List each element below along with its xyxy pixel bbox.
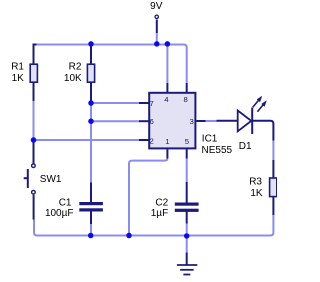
- wire pin5 stub: [186, 149, 188, 182]
- label SW1: [40, 174, 62, 185]
- svg-text:7: 7: [149, 99, 153, 108]
- junction dot trigger node: [31, 137, 37, 143]
- pin number 1: [165, 137, 169, 146]
- svg-text:C1: C1: [59, 197, 72, 208]
- svg-text:R3: R3: [249, 177, 262, 188]
- wire top rail 9V net: [34, 45, 187, 84]
- label R1 value: [11, 62, 24, 85]
- wire LED to right rail: [252, 121, 274, 160]
- wire pin4 drop: [166, 45, 168, 84]
- label IC1 NE555: [202, 134, 233, 157]
- pin number 6: [149, 117, 153, 126]
- label D1: [239, 141, 252, 152]
- label C1 value: [45, 197, 74, 219]
- wire SW1 bottom lead: [33, 195, 35, 220]
- wire pin7: [91, 102, 149, 104]
- wire pin2 trigger: [34, 139, 149, 141]
- pin number 3: [190, 117, 194, 126]
- junction dot R2 tap: [88, 41, 94, 47]
- wire R1 bottom lead: [33, 83, 35, 141]
- capacitor C1: [79, 202, 103, 212]
- svg-text:1K: 1K: [250, 188, 263, 199]
- wire pin6: [91, 120, 149, 122]
- label 9V: [150, 1, 163, 12]
- svg-text:SW1: SW1: [40, 174, 62, 185]
- wire C2 top lead: [186, 182, 188, 203]
- wire ground lead: [186, 238, 188, 265]
- pin number 8: [183, 95, 187, 104]
- resistor R2: [87, 64, 94, 82]
- svg-text:8: 8: [183, 95, 187, 104]
- wire C1 top lead: [90, 183, 92, 203]
- pin number 5: [185, 137, 189, 146]
- pin number 4: [164, 95, 169, 104]
- wire R3 bottom lead: [272, 197, 274, 215]
- switch SW1 push-to-make: [24, 164, 36, 194]
- svg-text:4: 4: [164, 95, 169, 104]
- wire R1 top lead: [34, 45, 37, 65]
- svg-text:1: 1: [165, 137, 169, 146]
- svg-text:9V: 9V: [150, 1, 163, 12]
- svg-text:1µF: 1µF: [151, 208, 168, 219]
- junction dot C1 bottom: [88, 233, 94, 239]
- svg-text:10K: 10K: [64, 73, 82, 84]
- wire R3 top lead: [272, 160, 274, 178]
- svg-text:100µF: 100µF: [45, 208, 74, 219]
- wire SW1 top lead: [33, 141, 35, 164]
- junction dot pin4 tap: [165, 41, 171, 47]
- svg-text:NE555: NE555: [202, 145, 233, 156]
- junction dot pin7 node: [88, 100, 94, 106]
- wire R2 top lead: [90, 45, 92, 64]
- wire pin4 stub: [166, 83, 168, 92]
- svg-text:6: 6: [149, 117, 153, 126]
- resistor R3: [270, 178, 277, 197]
- wire threshold column: [90, 103, 92, 183]
- resistor R1: [30, 64, 37, 82]
- label C2 value: [151, 197, 169, 218]
- svg-text:1K: 1K: [12, 73, 25, 84]
- junction dot 9V tap: [154, 41, 160, 47]
- svg-text:5: 5: [185, 137, 189, 146]
- svg-text:2: 2: [149, 137, 153, 146]
- label R2 value: [64, 62, 82, 85]
- svg-text:3: 3: [190, 117, 194, 126]
- wire pin1 stub and route to 0V: [129, 149, 167, 235]
- power terminal 9V: [155, 15, 158, 44]
- LED D1: [238, 96, 267, 134]
- label R3 value: [249, 177, 263, 200]
- svg-text:R1: R1: [11, 62, 24, 73]
- junction dot ground node: [184, 233, 190, 239]
- svg-text:D1: D1: [239, 141, 252, 152]
- wire pin8 stub: [186, 83, 188, 92]
- svg-text:C2: C2: [155, 197, 168, 208]
- wire C1 bottom lead: [90, 211, 92, 236]
- svg-text:R2: R2: [69, 62, 82, 73]
- pin number 7: [149, 99, 153, 108]
- svg-text:IC1: IC1: [202, 134, 218, 145]
- wire C2 bottom lead: [186, 211, 188, 233]
- op: IC U1 NE555 body: [149, 93, 195, 149]
- wire pin3 to LED: [196, 120, 237, 122]
- junction dot pin6 node: [88, 118, 94, 124]
- pin number 2: [149, 137, 153, 146]
- wire R2 bottom lead: [90, 83, 92, 104]
- ground symbol: [177, 265, 197, 275]
- junction dot pin1 route: [126, 233, 132, 239]
- capacitor C2: [175, 203, 199, 212]
- wire bottom rail 0V net: [34, 215, 273, 236]
